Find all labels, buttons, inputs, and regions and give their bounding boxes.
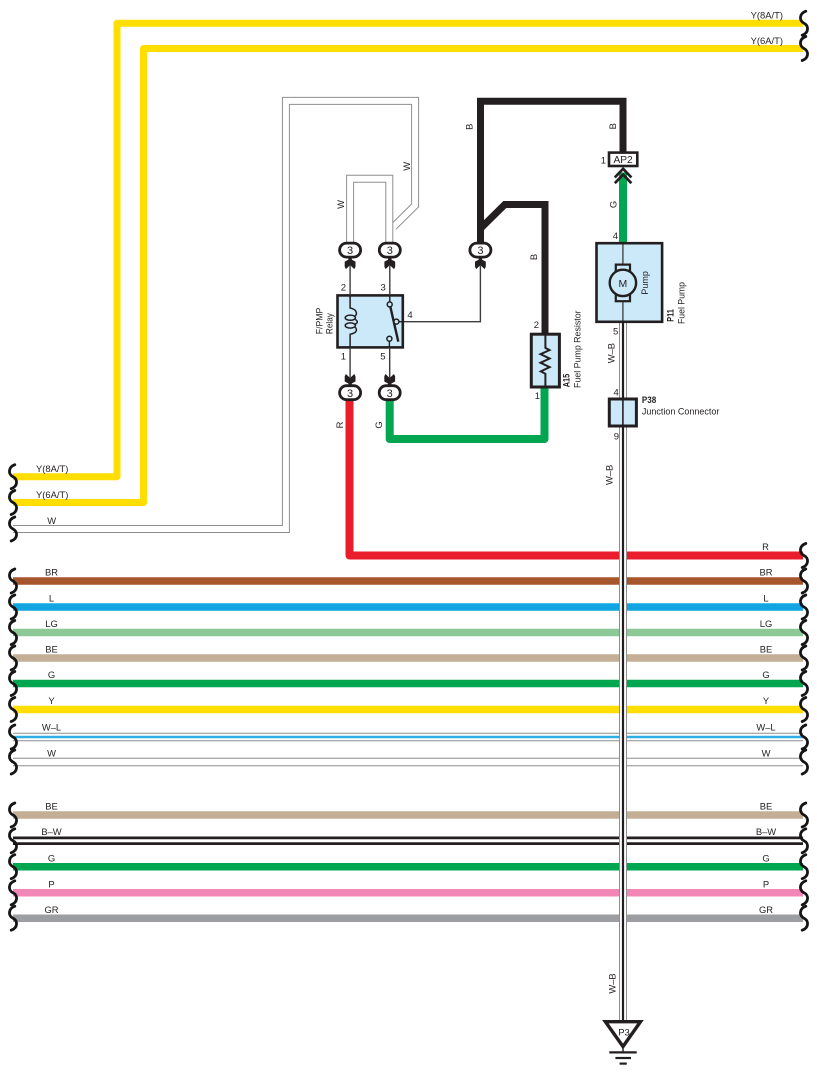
svg-text:P3: P3 [618,1028,630,1039]
svg-text:B–W: B–W [41,826,61,837]
svg-text:2: 2 [341,282,346,293]
break symbol B-W left [9,829,16,853]
break symbol G2 right [800,855,807,879]
relay pin stubs [350,266,390,378]
svg-text:BE: BE [45,801,58,812]
svg-text:W–L: W–L [42,722,61,733]
svg-text:G: G [373,421,384,428]
svg-text:BR: BR [45,567,58,578]
svg-text:AP2: AP2 [614,155,634,166]
svg-text:W: W [47,515,56,526]
connector arrow up (pin3) [384,257,395,269]
wire BE band 2 [13,811,803,819]
break symbol B-W right [800,829,807,853]
svg-text:LG: LG [760,618,773,629]
svg-text:BE: BE [760,801,773,812]
svg-text:A15: A15 [562,373,573,387]
svg-text:Y: Y [48,695,55,706]
break symbol BE2 left [9,803,16,827]
AP2 chevrons [615,169,632,183]
svg-text:1: 1 [341,352,346,363]
svg-text:BE: BE [760,644,773,655]
wire G green from AP2 to pump pin 4 [619,173,627,245]
svg-text:G: G [48,669,55,680]
wire R red from relay pin 1 to right edge [350,398,804,556]
break symbol BE2 right [800,803,807,827]
wire L band [13,603,803,611]
svg-text:P: P [48,879,54,890]
connector AP2 box [609,153,637,166]
break symbol G2 left [9,855,16,879]
connector oval 3 (relay pin5) [379,386,400,400]
break symbol W-L left [9,725,16,749]
break symbol P left [9,881,16,905]
svg-text:BR: BR [759,567,772,578]
wire Y band [13,706,803,714]
ground P3 [605,1022,640,1047]
svg-text:4: 4 [613,231,618,242]
svg-text:1: 1 [601,156,606,167]
wire G green from relay pin 5 to resistor pin 1 [390,385,545,439]
relay F/PMP box [338,295,403,347]
break symbol L left [9,595,16,619]
break symbol BR right [800,569,807,593]
wire BE band [13,654,803,662]
svg-text:Fuel Pump Resistor: Fuel Pump Resistor [573,310,584,388]
svg-text:Junction Connector: Junction Connector [642,407,720,418]
break symbol GR right [800,906,807,930]
svg-text:L: L [763,593,768,604]
svg-text:G: G [762,669,769,680]
pump motor [622,245,624,321]
fuel pump P11 box [597,243,663,322]
svg-text:Y(6A/T): Y(6A/T) [36,489,68,500]
wire Y(6A/T) yellow [13,49,803,503]
connector arrow up (pin4 wire) [475,257,486,269]
svg-text:W: W [401,162,412,171]
wire P band [13,889,803,897]
fuel pump resistor A15 box [531,334,559,387]
wire thin from relay pin 4 to connector [403,266,481,322]
wire LG band [13,629,803,637]
connector arrow down (pin1) [345,374,356,386]
svg-text:B–W: B–W [756,826,776,837]
wire G band [13,680,803,688]
wire BR band [13,577,803,585]
svg-text:4: 4 [407,310,412,321]
connector oval 3 (relay pin2) [340,243,361,257]
svg-text:1: 1 [535,391,540,402]
svg-text:P: P [763,879,769,890]
break symbol GR left [9,906,16,930]
wire Y(8A/T) yellow [13,23,803,477]
svg-text:G: G [762,853,769,864]
svg-text:Y: Y [763,695,770,706]
svg-text:W–B: W–B [604,465,615,485]
wire W big loop (left edge to junction near relay pin 3) [13,101,415,529]
svg-text:B: B [464,124,475,130]
svg-text:3: 3 [381,282,386,293]
connector arrow up (pin2) [345,257,356,269]
svg-text:Y(8A/T): Y(8A/T) [36,463,68,474]
wire G band 2 [13,863,803,871]
break symbol Y2 right [800,37,807,61]
break symbol LG right [800,621,807,645]
svg-text:LG: LG [45,618,58,629]
wire GR band [13,914,803,922]
wire B branch (to fuel pump resistor pin 2) [481,205,546,337]
svg-text:R: R [334,421,345,428]
svg-text:W: W [762,748,771,759]
wire W-B vertical (pump to ground) [619,320,627,1022]
resistor zigzag [541,336,550,386]
svg-text:5: 5 [380,352,385,363]
svg-text:GR: GR [44,904,58,915]
svg-text:Pump: Pump [640,271,651,295]
svg-text:G: G [48,853,55,864]
break symbol Y1 right [800,11,807,35]
svg-text:BE: BE [45,644,58,655]
connector arrow down (pin5) [384,374,395,386]
connector oval 3 (relay pin1) [340,386,361,400]
svg-text:Relay: Relay [325,313,336,334]
wire W U-shape between relay top connectors [350,179,389,249]
break symbol LG left [9,621,16,645]
svg-text:W: W [47,748,56,759]
svg-text:M: M [619,278,628,290]
svg-text:L: L [49,593,54,604]
break symbol W2 left [9,750,16,774]
svg-text:W: W [335,200,346,209]
svg-text:3: 3 [387,388,393,400]
svg-text:W–B: W–B [606,343,617,363]
break symbol BR left [9,569,16,593]
svg-text:B: B [607,123,618,129]
svg-text:3: 3 [387,245,393,257]
connector oval 3 (relay pin3) [379,243,400,257]
break symbol Y left [9,698,16,722]
break symbol BE left [9,646,16,670]
svg-text:P38: P38 [642,395,656,406]
break symbol W-L right [800,725,807,749]
break symbol Y right [800,698,807,722]
relay coil [350,297,357,347]
break symbol G right [800,672,807,696]
svg-text:P11: P11 [665,309,676,322]
break symbol P right [800,881,807,905]
wire W band [13,758,803,767]
wire W-L band [13,733,803,742]
svg-text:R: R [762,541,769,552]
svg-text:5: 5 [613,326,618,337]
wire B-W band [13,837,803,846]
svg-text:3: 3 [477,245,483,257]
break symbol R right [800,544,807,568]
wire B main (connector 3 up, across to AP2) [481,101,624,246]
svg-text:9: 9 [614,431,619,442]
break symbol Y2 left [9,491,16,515]
relay switch [389,297,391,302]
break symbol Y1 left [9,465,16,489]
svg-text:Fuel Pump: Fuel Pump [677,282,688,324]
break symbol BE right [800,646,807,670]
svg-text:G: G [607,201,618,208]
svg-text:W–B: W–B [607,973,618,993]
break symbol L right [800,595,807,619]
svg-text:Y(6A/T): Y(6A/T) [751,35,783,46]
svg-text:Y(8A/T): Y(8A/T) [751,9,783,20]
svg-text:B: B [528,254,539,260]
break symbol W left [9,517,16,541]
svg-text:3: 3 [347,388,353,400]
svg-text:GR: GR [759,904,773,915]
connector oval 3 (B wire) [470,243,491,257]
break symbol W2 right [800,750,807,774]
svg-text:2: 2 [534,320,539,331]
svg-text:4: 4 [614,388,619,399]
junction connector P38 box [609,399,636,426]
svg-text:W–L: W–L [756,722,775,733]
break symbol G left [9,672,16,696]
svg-text:3: 3 [347,245,353,257]
